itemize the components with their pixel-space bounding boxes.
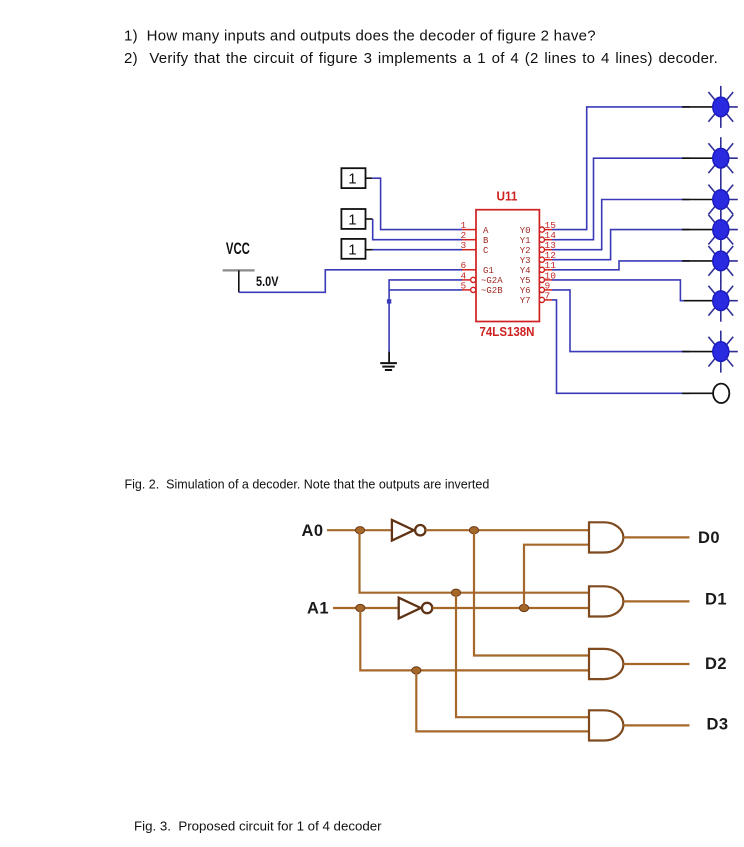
pin 1 A stub: [461, 220, 490, 236]
svg-text:G1: G1: [483, 266, 494, 276]
pin 10 Y5 stub with bubble: [520, 270, 557, 286]
AND gate 2 (D1): [589, 586, 623, 616]
AND gate 3 (D2): [589, 649, 623, 679]
junction dot A1 branch: [412, 667, 421, 674]
wire AND2 output to D1: [623, 600, 689, 602]
lamp X2 (lit): [708, 137, 737, 179]
wire Y0 to lamp X1: [552, 107, 713, 230]
svg-text:1: 1: [348, 211, 356, 228]
wire box3 to pin 3 C: [373, 249, 463, 251]
ground: [380, 352, 397, 370]
wire box2 to pin 2 B: [373, 219, 462, 240]
wire ground to pin 5 G2B: [389, 289, 462, 291]
input constant box 1 (value 1): [341, 168, 372, 188]
wire A1 input: [333, 607, 398, 609]
wire notA1 to AND2 bottom input: [432, 607, 589, 609]
pin 2 B stub: [461, 230, 490, 246]
wire notA0 to AND1 top input: [426, 529, 589, 531]
pin 4 ~G2A stub with bubble: [461, 270, 504, 286]
svg-text:Y2: Y2: [520, 246, 531, 256]
pin 15 Y0 stub with bubble: [520, 220, 557, 236]
svg-text:Fig. 3. Proposed circuit for: Fig. 3. Proposed circuit for 1 of 4 deco…: [134, 819, 382, 834]
wire A0 input: [327, 529, 391, 531]
pin 3 C stub: [461, 240, 490, 256]
pin 6 G1 stub: [461, 260, 494, 276]
wire Y2 to lamp X3: [552, 200, 713, 250]
svg-text:1: 1: [348, 171, 356, 188]
svg-text:Y7: Y7: [520, 296, 531, 306]
pin 14 Y1 stub with bubble: [520, 230, 557, 246]
inverter U3 (NOT A1): [399, 598, 433, 619]
svg-text:7: 7: [545, 290, 551, 301]
wire notA0 branch to AND3 top input: [474, 530, 589, 655]
svg-text:1: 1: [348, 241, 356, 258]
VCC symbol: [223, 240, 255, 292]
lamp X5 (lit): [708, 240, 737, 282]
svg-text:~G2B: ~G2B: [481, 286, 503, 296]
lamp X3 (lit): [708, 179, 737, 221]
svg-text:D1: D1: [705, 591, 727, 609]
pin 11 Y4 stub with bubble: [520, 260, 557, 276]
probe X8 (off, white): [713, 384, 729, 403]
svg-text:5.0V: 5.0V: [256, 273, 279, 289]
wire AND1 output to D0: [623, 536, 689, 538]
wire Y1 to lamp X2: [552, 158, 713, 240]
junction dot notA0: [469, 527, 478, 534]
wire A0 branch to AND4 top input: [456, 593, 589, 718]
svg-text:5: 5: [461, 280, 467, 291]
svg-text:1) How many inputs and output: 1) How many inputs and outputs does the …: [124, 28, 596, 45]
svg-text:D0: D0: [698, 529, 720, 547]
svg-text:Y5: Y5: [520, 276, 531, 286]
AND gate 1 (D0): [589, 522, 623, 552]
wire VCC to pin 6 G1: [239, 270, 462, 293]
lamp X1 (lit): [708, 86, 737, 128]
lamp X6 (lit): [708, 280, 737, 322]
junction dot A1: [356, 604, 365, 611]
pin 7 Y7 stub with bubble: [520, 290, 552, 306]
svg-text:A0: A0: [302, 522, 324, 540]
svg-text:B: B: [483, 236, 489, 246]
input constant box 2 (value 1): [341, 209, 372, 229]
AND gate 4 (D3): [589, 710, 623, 740]
wire A0 branch to AND2 top input: [360, 530, 590, 593]
svg-text:3: 3: [461, 240, 467, 251]
pin 5 ~G2B stub with bubble: [461, 280, 504, 296]
svg-text:Fig. 2. Simulation of a decod: Fig. 2. Simulation of a decoder. Note th…: [125, 477, 490, 491]
wire box1 to pin 1 A: [372, 178, 462, 229]
svg-text:74LS138N: 74LS138N: [480, 325, 535, 339]
svg-text:Y1: Y1: [520, 236, 531, 246]
junction dot notA1: [519, 604, 528, 611]
wire Y4 to lamp X5: [552, 261, 713, 270]
wire ground to pin 4 G2A: [389, 280, 462, 352]
wire notA1 branch to AND1 bottom input: [524, 545, 589, 608]
wire Y3 to lamp X4: [552, 230, 713, 260]
junction dot A0: [355, 527, 364, 534]
svg-text:Y6: Y6: [520, 286, 531, 296]
svg-text:C: C: [483, 246, 489, 256]
wire Y7 to probe X8: [552, 300, 714, 393]
lamp X7 (lit): [708, 331, 737, 373]
wire Y6 to lamp X7: [552, 290, 713, 352]
svg-text:A1: A1: [307, 599, 329, 617]
svg-text:VCC: VCC: [226, 240, 250, 258]
lamp X4 (lit): [708, 209, 737, 251]
svg-text:2) Verify that the circuit of: 2) Verify that the circuit of figure 3 i…: [124, 50, 718, 67]
wire A1 branch to AND4 bottom input: [416, 670, 589, 731]
junction ground net: [387, 299, 391, 303]
svg-text:Y3: Y3: [520, 256, 531, 266]
svg-text:Y4: Y4: [520, 266, 531, 276]
svg-text:D2: D2: [705, 655, 727, 673]
wire Y5 to lamp X6: [552, 280, 713, 301]
wire AND4 output to D3: [623, 724, 689, 726]
svg-text:Y0: Y0: [520, 226, 531, 236]
input constant box 3 (value 1): [341, 239, 372, 259]
svg-text:A: A: [483, 226, 489, 236]
inverter U2 (NOT A0): [392, 520, 426, 541]
svg-text:U11: U11: [497, 189, 518, 203]
pin 9 Y6 stub with bubble: [520, 280, 552, 296]
pin 13 Y2 stub with bubble: [520, 240, 557, 256]
svg-text:~G2A: ~G2A: [481, 276, 503, 286]
wire AND3 output to D2: [623, 663, 689, 665]
pin 12 Y3 stub with bubble: [520, 250, 557, 266]
svg-text:D3: D3: [707, 716, 729, 734]
IC U11 74LS138N body: [476, 210, 539, 322]
wire A1 branch to AND3 bottom input: [360, 608, 589, 670]
junction dot A0 branch: [451, 589, 460, 596]
